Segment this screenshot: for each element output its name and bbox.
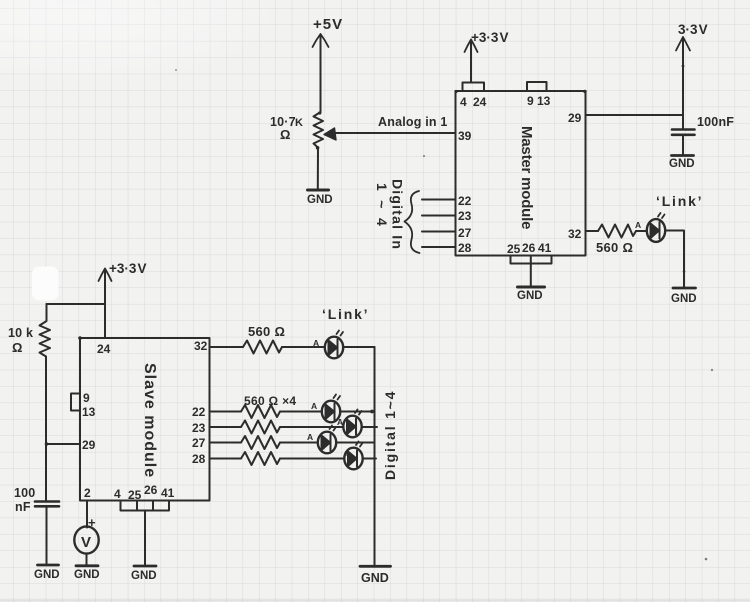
wire 3.3V rail to 10k branch xyxy=(47,303,106,305)
resistor 560 ohm (Link, slave) xyxy=(243,341,282,354)
ground (master bottom) xyxy=(518,286,545,289)
svg-text:V: V xyxy=(81,534,91,551)
resistor 560 ohm row4 xyxy=(241,452,280,465)
wire slave pin23 row xyxy=(210,426,242,428)
svg-text:3·3 V: 3·3 V xyxy=(678,22,708,37)
digital in stub pin28 xyxy=(422,246,456,248)
svg-text:A: A xyxy=(313,338,319,348)
svg-text:GND: GND xyxy=(517,290,543,302)
svg-text:A: A xyxy=(307,432,313,442)
svg-text:2: 2 xyxy=(84,486,91,500)
svg-text:GND: GND xyxy=(669,158,695,170)
ground (potentiometer) xyxy=(308,189,329,192)
svg-text:41: 41 xyxy=(538,241,552,255)
voltmeter V1 xyxy=(74,526,98,553)
resistor 560 ohm row1 xyxy=(241,405,280,418)
+3.3V supply (master) xyxy=(470,41,472,83)
scan speck xyxy=(175,69,177,71)
svg-text:23: 23 xyxy=(192,421,206,435)
LED D3 digital1 xyxy=(322,401,340,423)
svg-text:‘Link’: ‘Link’ xyxy=(322,306,369,322)
svg-text:24: 24 xyxy=(97,342,111,356)
svg-text:Slave module: Slave module xyxy=(141,363,158,478)
svg-text:25: 25 xyxy=(507,242,521,256)
LED D5 digital3 xyxy=(318,432,336,454)
svg-text:A: A xyxy=(337,417,343,427)
3.3V supply (top right) xyxy=(682,38,684,129)
svg-text:32: 32 xyxy=(568,227,582,241)
svg-text:Digital 1~4: Digital 1~4 xyxy=(382,390,398,480)
+3.3V supply (slave) xyxy=(104,270,106,338)
svg-text:Digital In: Digital In xyxy=(390,179,406,250)
svg-text:23: 23 xyxy=(458,209,472,223)
potentiometer R1 10.7K body xyxy=(314,112,324,148)
svg-text:1 ~ 4: 1 ~ 4 xyxy=(374,183,390,229)
scan speck xyxy=(423,155,425,157)
wire slave pin28 row xyxy=(210,458,242,460)
curly brace digital in xyxy=(405,191,420,253)
svg-text:22: 22 xyxy=(458,194,472,208)
resistor 560 ohm row2 xyxy=(241,421,280,434)
svg-text:+5V: +5V xyxy=(313,16,343,33)
svg-text:Master module: Master module xyxy=(518,126,535,229)
LED D2 Link (slave) xyxy=(325,337,343,359)
svg-text:560 Ω: 560 Ω xyxy=(596,240,633,255)
svg-text:GND: GND xyxy=(361,571,389,585)
resistor 560 ohm row3 xyxy=(241,436,280,449)
wire 10k to capacitor xyxy=(45,357,47,501)
slave module U2 box xyxy=(80,338,210,501)
svg-text:4: 4 xyxy=(460,95,467,109)
svg-text:100nF: 100nF xyxy=(697,115,734,129)
svg-text:Ω: Ω xyxy=(12,340,22,355)
white-out patch xyxy=(32,267,59,301)
svg-text:560 Ω ×4: 560 Ω ×4 xyxy=(244,394,296,408)
resistor R2 10k xyxy=(40,304,51,357)
svg-text:GND: GND xyxy=(74,569,100,581)
wire slave pin22 row xyxy=(210,411,242,413)
LED rail wire to ground xyxy=(374,347,376,565)
svg-text:A: A xyxy=(635,220,641,230)
svg-text:32: 32 xyxy=(194,339,208,353)
ground (C1) xyxy=(672,154,694,157)
svg-text:+3·3 V: +3·3 V xyxy=(109,261,147,276)
ground (LED rail) xyxy=(360,565,391,568)
wiper arrow wire Analog in 1 xyxy=(334,132,455,134)
svg-text:22: 22 xyxy=(192,405,206,419)
wire slave bottom tab to ground xyxy=(144,511,146,566)
digital in stub pin23 xyxy=(422,215,456,217)
svg-text:41: 41 xyxy=(161,486,175,500)
svg-text:+3·3 V: +3·3 V xyxy=(471,30,509,45)
master bottom tab pins 25 26 41 xyxy=(511,256,552,264)
resistor 560 ohm (Link, master) xyxy=(598,225,636,238)
svg-text:10 k: 10 k xyxy=(8,326,33,340)
svg-text:GND: GND xyxy=(671,293,697,305)
ground (Link master) xyxy=(673,287,696,290)
svg-text:A: A xyxy=(343,449,349,459)
master top tab pins 9 13 xyxy=(527,82,547,91)
capacitor C1 100nF xyxy=(672,128,695,131)
digital in stub pin27 xyxy=(422,231,456,233)
svg-text:27: 27 xyxy=(192,436,206,450)
ground (C2 branch) xyxy=(38,564,59,567)
svg-text:K: K xyxy=(295,117,303,129)
svg-text:GND: GND xyxy=(307,194,333,206)
slave bottom tab pins 4 25 26 41 xyxy=(121,501,170,511)
svg-text:25: 25 xyxy=(128,488,142,502)
svg-text:13: 13 xyxy=(537,94,551,108)
svg-text:‘Link’: ‘Link’ xyxy=(656,193,703,209)
+5V supply arrow xyxy=(320,36,322,112)
svg-text:39: 39 xyxy=(458,129,472,143)
svg-text:9: 9 xyxy=(527,94,534,108)
digital in stub pin22 xyxy=(422,199,456,201)
LED D1 Link (master) xyxy=(647,219,665,242)
scan speck xyxy=(711,369,713,371)
svg-text:29: 29 xyxy=(82,438,96,452)
svg-text:28: 28 xyxy=(458,241,472,255)
svg-text:27: 27 xyxy=(458,226,472,240)
wire junction to slave pin29 xyxy=(47,443,81,445)
svg-text:100: 100 xyxy=(14,486,35,500)
svg-text:24: 24 xyxy=(473,95,487,109)
scan speck xyxy=(705,558,708,561)
wire potentiometer to ground xyxy=(317,148,319,189)
svg-text:4: 4 xyxy=(114,487,121,501)
ground (slave bottom) xyxy=(134,565,156,568)
ground (voltmeter) xyxy=(76,564,98,567)
master top tab pins 4 24 xyxy=(463,83,485,92)
LED D4 digital2 xyxy=(343,416,361,438)
svg-text:nF: nF xyxy=(15,500,31,514)
wire slave pin27 row xyxy=(210,442,242,444)
master module U1 box xyxy=(456,91,586,256)
wire slave pin32 to resistor xyxy=(210,346,244,348)
svg-text:560 Ω: 560 Ω xyxy=(248,324,285,339)
svg-text:9: 9 xyxy=(83,391,90,405)
svg-text:26: 26 xyxy=(522,241,536,255)
svg-text:A: A xyxy=(311,401,317,411)
wire resistor to LED D1 xyxy=(636,230,647,232)
wire pin29 to 3.3V rail xyxy=(586,114,684,116)
svg-text:26: 26 xyxy=(144,483,158,497)
capacitor C2 100nF xyxy=(35,500,59,503)
svg-text:Ω: Ω xyxy=(280,127,290,142)
svg-text:Analog in 1: Analog in 1 xyxy=(378,115,448,129)
svg-text:+: + xyxy=(88,515,96,530)
LED D6 digital4 xyxy=(344,448,362,470)
svg-text:29: 29 xyxy=(568,111,582,125)
wire slave pin2 to voltmeter xyxy=(86,501,88,528)
wire LED to ground xyxy=(665,231,684,288)
svg-text:GND: GND xyxy=(34,569,60,581)
slave left tab pins 9 13 xyxy=(71,394,80,411)
wire pin32 to resistor xyxy=(586,230,599,232)
wire resistor to LED D2 xyxy=(282,346,324,348)
wire bottom tab to ground xyxy=(530,256,532,287)
wire LED D2 to rail xyxy=(343,346,374,348)
svg-text:28: 28 xyxy=(192,452,206,466)
svg-text:13: 13 xyxy=(82,405,96,419)
svg-text:GND: GND xyxy=(131,570,157,582)
